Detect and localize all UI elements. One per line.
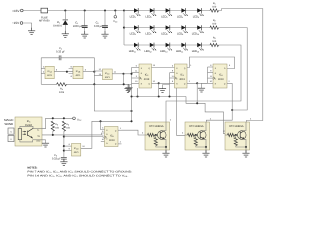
clock wedge bbox=[139, 77, 141, 80]
svg-text:D: D bbox=[141, 72, 143, 74]
svg-text:3: 3 bbox=[102, 134, 103, 136]
svg-text:10k: 10k bbox=[66, 127, 70, 130]
resistor (base-emitter, Q2) bbox=[194, 138, 197, 146]
wire C4 to node bbox=[61, 58, 94, 85]
wire emitter (Q2) bbox=[204, 139, 206, 147]
clock wedge bbox=[213, 77, 215, 80]
resistor R2 100 bbox=[210, 26, 219, 29]
junction rail/LED bus bbox=[123, 9, 125, 11]
wire collector (Q2) bbox=[204, 122, 206, 131]
capacitor C5 0.33uF bbox=[61, 156, 67, 159]
wire bottom rail extension bbox=[94, 83, 129, 85]
wire IC3 Q over to IC4 bbox=[187, 57, 235, 69]
LED LED8 bbox=[166, 25, 173, 33]
ground (IC3) bbox=[163, 85, 170, 88]
wire IC1B output bbox=[83, 71, 94, 73]
wire sensor V+ to Vcc rail bbox=[42, 118, 46, 128]
wire Vcc stub bbox=[114, 11, 116, 16]
svg-text:12: 12 bbox=[153, 80, 155, 82]
wire pin1 lead bbox=[41, 67, 45, 69]
capacitor C2 bbox=[102, 24, 108, 27]
wire LED row 3 bbox=[124, 44, 210, 46]
resistor (base-emitter, Q1) bbox=[154, 138, 157, 146]
svg-text:220k: 220k bbox=[59, 91, 64, 94]
junction R6 net bbox=[63, 136, 65, 138]
wire IC3 Qbar bbox=[187, 82, 197, 84]
wire base resistor top (Q1) bbox=[155, 135, 157, 138]
svg-text:D: D bbox=[106, 133, 108, 135]
flip-flop IC2 4013 bbox=[139, 64, 152, 88]
svg-text:100: 100 bbox=[212, 6, 216, 9]
resistor R3 100 bbox=[210, 43, 219, 46]
junction bus/clock bbox=[130, 73, 132, 75]
wire to ground (Q2) bbox=[205, 147, 207, 153]
LED LED11 bbox=[134, 43, 141, 51]
svg-text:C: C bbox=[106, 138, 108, 140]
svg-text:S: S bbox=[106, 129, 107, 131]
junction IC5 pin1 tap bbox=[99, 120, 101, 122]
wire IC2 Qbar to IC3 bracket bbox=[159, 82, 170, 84]
junction emitter (Q1) bbox=[165, 146, 167, 148]
LED LED5 bbox=[197, 8, 204, 16]
wire IC3 pin 11 lead bbox=[170, 77, 175, 79]
svg-text:10: 10 bbox=[102, 138, 104, 140]
wire IC4 Qbar down bbox=[231, 83, 233, 110]
wire LED row 2 bbox=[124, 26, 210, 28]
ground (Q3) bbox=[242, 150, 249, 157]
wire row3 to Q1 collector bbox=[166, 45, 241, 122]
svg-text:4: 4 bbox=[85, 68, 86, 71]
junction rail/Vcc stub bbox=[114, 9, 116, 11]
wire IC1D input 9 bbox=[64, 149, 72, 151]
wire C1 to ground bbox=[84, 28, 86, 32]
junction osc node bottom bbox=[93, 83, 95, 85]
svg-text:MF-R050: MF-R050 bbox=[39, 20, 50, 23]
transistor Q1 DTC143ESA bbox=[145, 122, 170, 150]
svg-text:Q: Q bbox=[115, 130, 117, 132]
junction clock net a bbox=[136, 95, 138, 97]
svg-text:2: 2 bbox=[142, 131, 143, 134]
flip-flop IC4 4013 bbox=[213, 64, 227, 88]
terminal +15V bbox=[21, 9, 24, 12]
wire -15V to ground bbox=[23, 23, 32, 28]
wire IC4 pin 11 lead bbox=[208, 77, 214, 79]
svg-text:10: 10 bbox=[82, 145, 84, 147]
wire IC4 Qbar bbox=[227, 82, 232, 84]
LED LED1 bbox=[134, 8, 141, 16]
wire IC3 left pin bus bbox=[168, 73, 170, 97]
wire R4 to node bbox=[66, 83, 94, 85]
LED LED15 bbox=[197, 43, 204, 51]
svg-text:12: 12 bbox=[99, 68, 101, 70]
svg-text:100: 100 bbox=[212, 40, 216, 43]
wire +15V to fuse bbox=[23, 9, 41, 11]
svg-text:1: 1 bbox=[120, 127, 121, 129]
op-amp gate IC1C 4071 bbox=[103, 69, 113, 80]
svg-text:4013: 4013 bbox=[144, 78, 150, 81]
clock wedge bbox=[175, 77, 177, 80]
svg-text:6: 6 bbox=[102, 127, 103, 129]
wire IC1A out to IC1B in bbox=[54, 71, 73, 73]
junction IC1D input a bbox=[63, 145, 65, 147]
svg-text:1: 1 bbox=[250, 118, 251, 121]
svg-text:2: 2 bbox=[182, 132, 183, 135]
wire IC2 Q to IC3 bbox=[152, 66, 175, 68]
wire to ground (Q1) bbox=[165, 147, 167, 153]
svg-text:10k: 10k bbox=[55, 127, 59, 130]
wire base resistor top (Q3) bbox=[235, 135, 237, 138]
resistor (base, Q3) bbox=[228, 133, 235, 136]
svg-text:Q: Q bbox=[184, 67, 186, 69]
wire row1 to Q3 collector bbox=[219, 9, 263, 122]
wire to Q2 collector bbox=[206, 110, 232, 122]
svg-text:C: C bbox=[141, 78, 143, 80]
svg-text:1: 1 bbox=[190, 64, 191, 66]
wire R6 net to IC5 pin3 bbox=[64, 135, 105, 138]
junction IC2 Qbar bbox=[158, 82, 160, 84]
wire IC3 pin 9 lead bbox=[170, 72, 175, 74]
svg-text:R: R bbox=[141, 83, 143, 85]
junction clock net b bbox=[158, 95, 160, 97]
svg-text:1000 µF: 1000 µF bbox=[73, 25, 83, 28]
svg-text:Q: Q bbox=[115, 143, 117, 145]
LED LED14 bbox=[181, 43, 188, 51]
svg-text:10: 10 bbox=[210, 80, 212, 82]
transistor NPN (Q3) bbox=[238, 131, 247, 140]
LED LED7 bbox=[150, 25, 157, 33]
svg-text:8: 8 bbox=[69, 143, 70, 145]
junction rail/D1 bbox=[64, 9, 66, 11]
junction clock net c bbox=[168, 95, 170, 97]
svg-text:9: 9 bbox=[172, 70, 173, 72]
junction IC1B input bbox=[66, 71, 68, 73]
svg-text:DTC143ESA: DTC143ESA bbox=[189, 125, 203, 128]
wire IC2 left pin bus bbox=[130, 68, 132, 122]
wire staircase to Q3 input bbox=[186, 97, 227, 134]
wire IC3 pin 8 lead bbox=[170, 82, 175, 84]
wire IC3 Qbar to IC4 bus bbox=[197, 82, 207, 84]
wire IC2 pin 6 lead bbox=[132, 66, 140, 68]
wire osc to bus lower bbox=[94, 84, 131, 111]
svg-text:0.33 µF: 0.33 µF bbox=[52, 157, 61, 160]
svg-text:5: 5 bbox=[172, 65, 173, 67]
wire C2 to ground bbox=[104, 28, 106, 32]
wire sensor GND bbox=[42, 140, 46, 143]
junction bus bottom bbox=[130, 120, 132, 122]
svg-text:1: 1 bbox=[170, 118, 171, 121]
ground (IC2) bbox=[128, 85, 132, 88]
ground (C5) bbox=[60, 159, 67, 166]
svg-text:4013: 4013 bbox=[218, 78, 224, 81]
svg-text:D: D bbox=[215, 72, 217, 74]
wire clock net bbox=[132, 95, 187, 97]
svg-text:Q: Q bbox=[224, 83, 226, 85]
wire IC2 pin 11 lead bbox=[132, 72, 140, 74]
svg-text:R: R bbox=[215, 83, 217, 85]
svg-text:2: 2 bbox=[120, 141, 121, 143]
wire IC2 bottom pin bbox=[136, 88, 138, 97]
transistor Q2 DTC143ESA bbox=[185, 122, 210, 150]
svg-text:C: C bbox=[176, 78, 178, 80]
wire IC5 Q to Q1 input bbox=[122, 130, 146, 135]
svg-text:3: 3 bbox=[56, 68, 57, 71]
wire GND internal bbox=[33, 139, 42, 141]
wire IC4 pin 8 lead bbox=[208, 66, 214, 68]
junction rail/R5 bbox=[52, 117, 54, 119]
svg-text:11: 11 bbox=[114, 71, 116, 73]
sensor IC6 2S082 (magic wand pickup) bbox=[15, 117, 42, 146]
svg-text:13: 13 bbox=[153, 64, 155, 66]
resistor R4 220k bbox=[57, 83, 67, 86]
op-amp gate IC1A 4071 bbox=[45, 66, 54, 78]
LED LED10 bbox=[197, 25, 204, 33]
svg-text:1: 1 bbox=[210, 117, 211, 120]
svg-text:4071: 4071 bbox=[105, 76, 110, 79]
svg-text:PIN 7 AND IC₁, IC₂, AND IC₃ SH: PIN 7 AND IC₁, IC₂, AND IC₃ SHOULD CONNE… bbox=[27, 170, 132, 173]
wire C5 to ground bbox=[63, 159, 65, 161]
wire IC5 Qbar stub bbox=[118, 143, 122, 145]
wire IC5 Q bbox=[118, 129, 122, 131]
wire IC1C input 13 bbox=[94, 75, 102, 77]
op-amp gate IC1B 4071 bbox=[73, 66, 83, 78]
junction clock/IC2 bus bbox=[130, 95, 132, 97]
svg-text:S: S bbox=[215, 67, 216, 69]
transistor Q (sensor phototransistor) bbox=[26, 131, 29, 136]
wire row2 return bbox=[219, 28, 248, 110]
LED LED3 bbox=[166, 8, 173, 16]
wire IC2 pin 10 lead bbox=[132, 82, 140, 84]
terminal Vcc bbox=[114, 15, 117, 18]
wire emitter rail (Q3) bbox=[236, 146, 246, 147]
svg-text:C: C bbox=[215, 78, 217, 80]
wire V+ internal bbox=[33, 128, 42, 130]
wire to C1 bbox=[84, 11, 86, 26]
svg-text:Q: Q bbox=[148, 83, 150, 85]
transistor NPN (Q1) bbox=[158, 131, 167, 140]
LED LED13 bbox=[166, 43, 173, 51]
junction IC3 Qbar bbox=[196, 82, 198, 84]
wire IC5 pin4 stub bbox=[101, 140, 105, 142]
fuse F1 MF-R050 bbox=[41, 8, 48, 13]
svg-text:R: R bbox=[106, 142, 108, 144]
svg-text:1N4001: 1N4001 bbox=[53, 25, 62, 28]
junction IC1D input b bbox=[63, 150, 65, 152]
svg-text:2: 2 bbox=[189, 80, 190, 82]
junction bus/osc lower bbox=[130, 110, 132, 112]
svg-text:8: 8 bbox=[102, 130, 103, 132]
wire IC1C input 12 bbox=[94, 70, 102, 72]
wire R5 bottom bbox=[52, 131, 54, 135]
wire emitter (Q3) bbox=[244, 139, 246, 147]
wire +15V rail bbox=[48, 9, 134, 11]
ground (sensor) bbox=[42, 143, 49, 147]
wire to C4 bbox=[41, 57, 59, 59]
svg-text:+15V: +15V bbox=[12, 9, 20, 13]
terminal Vcc (pullups) bbox=[73, 117, 76, 120]
svg-text:4071: 4071 bbox=[74, 151, 79, 154]
svg-text:S: S bbox=[10, 138, 11, 140]
junction rail/R6 bbox=[63, 117, 65, 119]
wire to ground (Q3) bbox=[245, 147, 247, 153]
wire emitter (Q1) bbox=[164, 139, 166, 147]
svg-text:Q: Q bbox=[148, 67, 150, 69]
ground (-15V return) bbox=[28, 28, 35, 35]
junction emitter (Q2) bbox=[205, 146, 207, 148]
svg-text:4071: 4071 bbox=[47, 74, 52, 77]
svg-text:DTC143ESA: DTC143ESA bbox=[229, 125, 243, 128]
svg-text:9: 9 bbox=[69, 148, 70, 150]
svg-text:D: D bbox=[224, 67, 226, 69]
resistor (sensor internal) bbox=[18, 129, 21, 140]
ground (Q1) bbox=[162, 150, 169, 157]
ground (IC4) bbox=[202, 83, 208, 87]
resistor (base, Q1) bbox=[148, 133, 155, 136]
diode D1 (clamp, cathode up) bbox=[64, 11, 66, 20]
LED LED4 bbox=[181, 8, 188, 16]
LED LED6 bbox=[134, 25, 141, 33]
svg-text:9: 9 bbox=[210, 70, 211, 72]
svg-text:11: 11 bbox=[172, 75, 174, 77]
wire IC4 pin 9 lead bbox=[208, 71, 214, 73]
wire sensor Vout to IC5 bbox=[42, 133, 105, 135]
resistor R6 10k bbox=[62, 121, 65, 131]
wire IC1C output bbox=[112, 73, 123, 75]
svg-text:2: 2 bbox=[228, 80, 229, 82]
flip-flop IC5 4013 bbox=[105, 127, 119, 147]
ground (C1) bbox=[81, 31, 88, 38]
svg-text:11: 11 bbox=[135, 70, 137, 72]
op-amp gate IC1D 4071 bbox=[72, 144, 81, 157]
wire IC4 left pin bus bbox=[206, 67, 208, 83]
LED LED12 bbox=[150, 43, 157, 51]
junction clock node bbox=[122, 73, 124, 75]
wire IC1D input 8 bbox=[64, 145, 72, 147]
wire IC1B input leads bbox=[69, 69, 73, 74]
magnet S bbox=[8, 135, 14, 141]
wire to C2 bbox=[104, 11, 106, 26]
wire R6 column to C5 bbox=[63, 131, 65, 157]
wire LED anode bus bbox=[123, 11, 125, 46]
junction Vout/R5 bbox=[52, 134, 54, 136]
wire pin2 lead bbox=[41, 72, 45, 74]
svg-text:4013: 4013 bbox=[109, 139, 115, 142]
transistor NPN (Q2) bbox=[198, 131, 207, 140]
wire osc input bus bbox=[40, 58, 42, 85]
resistor R1 100 bbox=[210, 9, 219, 12]
wire to IC5 pin1 bbox=[101, 121, 105, 129]
svg-text:DTC143ESA: DTC143ESA bbox=[149, 125, 163, 128]
wire IC2 Qbar to clock net bbox=[158, 83, 160, 96]
svg-text:8: 8 bbox=[210, 64, 211, 66]
ground (pin7) bbox=[125, 85, 132, 92]
junction rail/C2 bbox=[104, 9, 106, 11]
svg-text:5: 5 bbox=[71, 66, 72, 69]
terminal -15V bbox=[20, 22, 23, 25]
wire IC2 Qbar bbox=[152, 82, 159, 84]
svg-text:WAND: WAND bbox=[4, 123, 13, 126]
svg-text:D: D bbox=[176, 72, 178, 74]
svg-text:13: 13 bbox=[99, 73, 101, 75]
svg-text:N: N bbox=[10, 131, 11, 133]
svg-text:Q: Q bbox=[184, 83, 186, 85]
svg-text:11: 11 bbox=[210, 75, 212, 77]
wire IC3 Qbar to staircase bbox=[196, 83, 198, 103]
capacitor C4 0.33uF bbox=[58, 55, 61, 60]
wire IC4 pin 10 lead bbox=[208, 82, 214, 84]
wire collector (Q1) bbox=[164, 122, 166, 131]
junction row2/Q-bar net bbox=[231, 109, 233, 111]
svg-text:R: R bbox=[176, 83, 178, 85]
svg-text:4071: 4071 bbox=[76, 74, 81, 77]
wire Q2 input bbox=[177, 88, 186, 135]
svg-text:0.33 µF: 0.33 µF bbox=[56, 50, 65, 53]
wire to R4 bbox=[41, 83, 56, 85]
wire clock node to IC2 bus bbox=[124, 73, 132, 75]
LED LED9 bbox=[181, 25, 188, 33]
wire LED row 1 bbox=[124, 9, 210, 11]
svg-text:NOTES:: NOTES: bbox=[27, 166, 37, 169]
flip-flop IC3 4013 bbox=[175, 64, 188, 88]
wire emitter rail (Q1) bbox=[156, 146, 166, 147]
ground (Q2) bbox=[202, 150, 209, 157]
wire IC2 pin 3 lead bbox=[132, 77, 140, 79]
wire emitter rail (Q2) bbox=[196, 146, 206, 147]
svg-text:6: 6 bbox=[136, 65, 137, 67]
wire IC1D out up to bus bbox=[81, 121, 132, 148]
svg-text:8: 8 bbox=[172, 80, 173, 82]
svg-text:0.33 µF: 0.33 µF bbox=[94, 25, 103, 28]
wire sensor R bottom bbox=[20, 140, 33, 142]
resistor (base, Q2) bbox=[188, 133, 195, 136]
magnet N bbox=[8, 128, 14, 134]
svg-text:PIN 14 AND IC₁, IC₂, AND IC₃ S: PIN 14 AND IC₁, IC₂, AND IC₃ SHOULD CONN… bbox=[27, 175, 128, 178]
svg-text:4013: 4013 bbox=[179, 78, 185, 81]
resistor R5 10k bbox=[51, 121, 54, 131]
junction rail/clock bbox=[123, 83, 125, 85]
ground (C2) bbox=[101, 31, 108, 38]
svg-text:1: 1 bbox=[43, 66, 44, 69]
wire Vcc pullup rail bbox=[46, 117, 73, 119]
svg-text:6: 6 bbox=[71, 75, 72, 78]
capacitor C1 bbox=[82, 24, 88, 27]
wire base resistor top (Q2) bbox=[195, 135, 197, 138]
junction rail/C1 bbox=[84, 9, 86, 11]
junction staircase/IC3 Qbar bbox=[196, 102, 198, 104]
clock wedge bbox=[105, 136, 107, 139]
resistor (base-emitter, Q3) bbox=[234, 138, 237, 146]
svg-text:100: 100 bbox=[212, 23, 216, 26]
wire collector (Q3) bbox=[244, 122, 246, 131]
LED LED2 bbox=[150, 8, 157, 16]
svg-text:S: S bbox=[141, 67, 142, 69]
ground (D1) bbox=[62, 31, 69, 38]
svg-text:MAGIC: MAGIC bbox=[4, 119, 13, 122]
junction emitter (Q3) bbox=[245, 146, 247, 148]
svg-text:5: 5 bbox=[229, 64, 230, 66]
svg-text:10: 10 bbox=[135, 80, 137, 82]
junction bus/row2 bbox=[123, 27, 125, 29]
svg-text:3: 3 bbox=[136, 75, 137, 77]
transistor Q3 DTC143ESA bbox=[225, 122, 250, 150]
svg-text:2: 2 bbox=[43, 71, 44, 74]
junction feedback node bbox=[93, 71, 95, 73]
svg-text:−15V: −15V bbox=[12, 21, 20, 25]
wire sensor R top bbox=[20, 126, 33, 128]
svg-text:S: S bbox=[176, 67, 177, 69]
wire clock node down bbox=[123, 74, 125, 85]
light arrows into sensor bbox=[23, 131, 26, 133]
svg-text:FUSE: FUSE bbox=[41, 16, 48, 19]
